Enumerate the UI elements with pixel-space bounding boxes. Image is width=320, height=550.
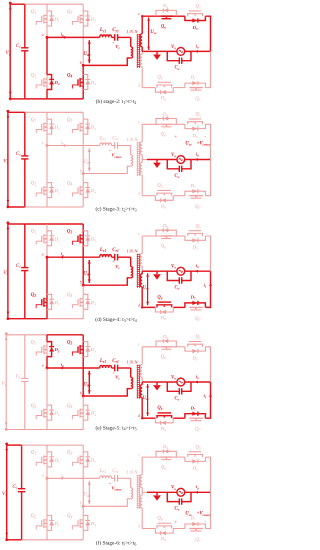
ground [153, 492, 161, 501]
current ip [60, 251, 65, 258]
svg-text:Q3: Q3 [67, 340, 73, 345]
svg-text:io: io [196, 263, 199, 269]
svg-text:D5: D5 [192, 466, 198, 472]
transistor Q7 [189, 529, 203, 544]
transistor Q3 [67, 230, 83, 247]
transistor Q2 [31, 293, 47, 310]
wire node a to resonant tank [47, 367, 100, 369]
body diode D5 [185, 457, 206, 472]
voltage arrow Uab [83, 481, 91, 504]
node d [138, 525, 140, 529]
svg-text:Vo: Vo [171, 486, 176, 491]
body diode D1 [47, 11, 60, 26]
svg-text:Uab: Uab [83, 160, 90, 165]
inductor Lr1 [99, 136, 112, 145]
svg-text:is: is [204, 393, 207, 399]
wire Q4 source to rail [82, 531, 84, 539]
body diode D6 [156, 3, 176, 16]
svg-text:D5: D5 [192, 133, 198, 139]
body diode D2 [47, 515, 60, 530]
svg-text:a: a [42, 474, 44, 478]
primary winding [83, 377, 132, 396]
svg-text:Q2: Q2 [31, 404, 37, 409]
svg-text:D1: D1 [54, 17, 60, 23]
svg-text:Cr1: Cr1 [112, 28, 119, 33]
node a [42, 33, 49, 39]
svg-text:ip: ip [61, 31, 64, 37]
svg-text:D5: D5 [192, 245, 198, 251]
wire right rail upper [205, 124, 210, 159]
wire Q1 source to node a [46, 27, 48, 37]
svg-text:D4: D4 [90, 411, 96, 417]
wire bottom rail [10, 98, 83, 100]
transistor Q8 [156, 295, 172, 307]
body diode D4 [83, 75, 96, 90]
svg-text:Vi: Vi [3, 270, 8, 276]
svg-text:d: d [138, 525, 140, 529]
inductor Lr1 [99, 248, 112, 257]
secondary top winding [140, 16, 142, 51]
wire node a to resonant tank [47, 145, 100, 147]
wire node c to Q6 [142, 235, 160, 237]
wire Q8 to Q7 [173, 306, 185, 308]
node a [42, 363, 49, 369]
svg-text:Vi: Vi [5, 50, 10, 56]
transistor Q1 [31, 230, 47, 247]
wire center tap [142, 491, 147, 493]
wire node c to Q6 [142, 346, 160, 348]
wire Q8 to Q7 [173, 528, 185, 530]
wire Q1 drain lead [46, 224, 48, 230]
transistor Q3 [67, 451, 83, 468]
svg-text:Q5: Q5 [196, 446, 201, 451]
current io [195, 484, 199, 494]
svg-text:c: c [138, 343, 140, 347]
inductor Lr1 [99, 359, 112, 368]
transistor Q1 [31, 10, 47, 27]
svg-text:Q6: Q6 [161, 465, 166, 470]
svg-text:Uab: Uab [83, 272, 90, 277]
svg-text:c: c [138, 453, 140, 457]
body diode D2 [47, 75, 60, 90]
svg-text:D5: D5 [192, 25, 198, 31]
wire Q3 source to node b [82, 468, 84, 506]
current io [195, 151, 199, 161]
wire right rail lower [205, 160, 210, 196]
voltage source Vo [171, 153, 185, 164]
svg-text:+: + [112, 371, 114, 375]
transistor Q6 [160, 124, 172, 137]
node b [80, 169, 85, 175]
capacitor Co [167, 51, 191, 70]
label Vc [112, 371, 120, 381]
wire node d to Q8 [142, 417, 155, 419]
svg-text:Ci: Ci [16, 151, 21, 157]
body diode D3 [83, 11, 96, 26]
svg-text:D3: D3 [90, 347, 96, 353]
voltage source Vi [3, 110, 9, 209]
transistor Q1 [31, 451, 47, 468]
wire output line [157, 381, 211, 383]
transistor Q5 [187, 5, 203, 17]
wire right rail lower [205, 51, 210, 87]
svg-text:Use: Use [185, 142, 192, 147]
node b [80, 281, 85, 287]
ground [153, 160, 161, 169]
secondary bottom winding [140, 492, 142, 528]
wire node d to Q8 [142, 528, 155, 530]
svg-text:Vo: Vo [171, 375, 176, 380]
body diode D7 [185, 516, 206, 529]
svg-text:Q6: Q6 [161, 244, 166, 249]
svg-text:Lr1: Lr1 [99, 469, 106, 474]
wire Q1 drain lead [46, 112, 48, 118]
body diode D7 [185, 183, 206, 196]
wire Q6 to Q5 [173, 456, 185, 458]
svg-text:Q2: Q2 [31, 73, 37, 78]
wire node b to Q4 [82, 396, 84, 404]
svg-text:Co: Co [175, 174, 180, 179]
capacitor Co [167, 492, 191, 511]
body diode D6 [156, 444, 176, 457]
svg-text:Co: Co [175, 286, 180, 291]
svg-text:io: io [196, 484, 199, 490]
svg-text:Q7: Q7 [195, 205, 200, 210]
svg-text:D3: D3 [90, 125, 96, 131]
svg-text:D4: D4 [90, 521, 96, 527]
wire Q8 to Q7 [173, 195, 185, 197]
wire bottom rail [7, 539, 84, 541]
wire Q3 drain lead [82, 4, 84, 10]
body diode D8 [155, 307, 173, 321]
svg-text:a: a [42, 33, 44, 37]
wire Q1 drain lead [46, 4, 48, 10]
ground [153, 382, 161, 391]
primary winding [83, 155, 132, 174]
voltage source Vi [3, 221, 9, 320]
transistor Q4 [67, 514, 83, 531]
svg-text:D2: D2 [54, 521, 60, 527]
wire Q3 drain lead [82, 445, 84, 451]
body diode D2 [47, 183, 60, 198]
voltage arrow Uab [83, 148, 91, 171]
capacitor Co [167, 271, 191, 290]
transistor Q5 [187, 446, 203, 458]
body diode D5 [185, 124, 206, 139]
current io [195, 263, 199, 273]
svg-text:a: a [42, 253, 44, 257]
wire Q1 source to node a [46, 135, 48, 145]
svg-text:Q3: Q3 [67, 451, 73, 456]
svg-text:Q7: Q7 [195, 538, 200, 543]
svg-text:Ci: Ci [16, 263, 21, 269]
voltage arrow Uab [83, 371, 91, 394]
svg-text:Cr1: Cr1 [112, 136, 119, 141]
svg-text:Q8: Q8 [157, 76, 162, 81]
svg-text:Q6: Q6 [161, 24, 166, 29]
wire node b to Q4 [82, 174, 84, 182]
capacitor Ci [16, 335, 29, 430]
secondary top winding [140, 457, 142, 492]
voltage arrow Uab [83, 40, 91, 63]
transformer core [137, 34, 140, 68]
transistor Q6 [160, 347, 172, 360]
voltage source Vi [1, 332, 7, 431]
svg-text:Co: Co [175, 396, 180, 401]
svg-text:d: d [138, 192, 140, 196]
transformer core [137, 254, 140, 288]
svg-text:Use: Use [143, 396, 150, 401]
svg-text:D4: D4 [90, 188, 96, 194]
svg-text:Q5: Q5 [196, 113, 201, 118]
capacitor Ci [12, 445, 25, 540]
wire node a to Q2 [46, 146, 48, 182]
svg-text:D8: D8 [160, 203, 166, 209]
body diode D2 [47, 405, 60, 420]
body diode D8 [155, 88, 173, 102]
secondary top winding [140, 124, 142, 159]
primary winding [83, 47, 132, 66]
transistor Q4 [67, 404, 83, 421]
svg-text:Co: Co [175, 66, 180, 71]
body diode D5 [185, 16, 206, 31]
secondary top winding [140, 347, 142, 382]
transistor Q3 [67, 340, 83, 357]
wire node c to Q6 [142, 456, 160, 458]
body diode D5 [185, 236, 206, 251]
svg-text:Vo: Vo [171, 153, 176, 158]
wire Q1 source to node a [46, 247, 48, 257]
wire Q1 source to node a [46, 468, 48, 478]
svg-text:(b) stage-2: t1>t>t2: (b) stage-2: t1>t>t2 [96, 98, 137, 105]
svg-text:Q3: Q3 [67, 230, 73, 235]
svg-text:c: c [138, 120, 140, 124]
svg-text:-: - [205, 519, 207, 524]
wire Q2 source to rail [46, 531, 48, 539]
capacitor Co [167, 382, 191, 401]
svg-text:Q8: Q8 [157, 406, 162, 411]
transistor Q4 [67, 293, 83, 310]
wire right rail lower [205, 492, 210, 528]
wire Q3 source to node b [82, 135, 84, 173]
body diode D6 [156, 334, 176, 347]
body diode D4 [83, 515, 96, 530]
transistor Q8 [156, 184, 172, 196]
secondary bottom winding [140, 51, 142, 87]
wire Q1 source to node a [46, 358, 48, 368]
wire Q4 source to rail [82, 91, 84, 99]
svg-text:+Vcmax: +Vcmax [197, 512, 211, 517]
body diode D1 [47, 342, 60, 357]
body diode D6 [156, 111, 176, 124]
svg-text:Q2: Q2 [31, 293, 37, 298]
voltage arrow Use [143, 273, 150, 305]
body diode D4 [83, 294, 96, 309]
svg-text:D2: D2 [54, 300, 60, 306]
wire Q6 to Q5 [173, 346, 185, 348]
svg-text:Lr1: Lr1 [99, 136, 106, 141]
label Vc [112, 40, 120, 50]
node c [138, 343, 140, 347]
svg-text:d: d [138, 84, 140, 88]
svg-text:Use: Use [143, 285, 150, 290]
wire top rail [6, 334, 83, 336]
wire Q8 to Q7 [173, 87, 185, 89]
body diode D5 [185, 347, 206, 362]
svg-text:Q6: Q6 [161, 355, 166, 360]
wire tank to transformer [130, 146, 132, 155]
wire node d to Q8 [142, 306, 155, 308]
svg-text:Use: Use [150, 30, 157, 35]
transistor Q5 [187, 224, 203, 236]
voltage source Vi [2, 443, 8, 542]
svg-text:+: + [175, 133, 178, 138]
wire Q4 source to rail [82, 310, 84, 318]
svg-text:b: b [80, 391, 82, 395]
svg-text:1:N:N: 1:N:N [126, 29, 138, 34]
svg-text:Q7: Q7 [195, 317, 200, 322]
body diode D4 [83, 405, 96, 420]
voltage source Vo [171, 265, 185, 276]
svg-text:Lr1: Lr1 [99, 359, 106, 364]
svg-text:Q2: Q2 [31, 181, 37, 186]
secondary top winding [140, 236, 142, 271]
node c [138, 12, 143, 17]
svg-text:Vc: Vc [115, 264, 120, 270]
svg-text:Q5: Q5 [196, 224, 201, 229]
voltage source Vo [171, 45, 185, 56]
transistor Q5 [187, 335, 203, 347]
node a [42, 474, 49, 480]
wire tank to transformer [130, 478, 132, 487]
svg-text:Q1: Q1 [31, 230, 37, 235]
capacitor Ci [16, 224, 29, 319]
svg-text:1:N:N: 1:N:N [126, 470, 138, 475]
svg-text:c: c [138, 12, 140, 16]
svg-text:D3: D3 [90, 17, 96, 23]
transistor Q3 [67, 10, 83, 27]
svg-text:D1: D1 [54, 236, 60, 242]
svg-text:D8: D8 [160, 315, 166, 321]
wire bottom rail [8, 318, 83, 320]
svg-text:Vi: Vi [1, 381, 6, 387]
svg-text:a: a [42, 141, 44, 145]
node b [80, 502, 85, 508]
capacitor Cr1 [112, 469, 131, 482]
wire tank to transformer [130, 37, 132, 46]
svg-text:Q4: Q4 [67, 514, 73, 519]
capacitor Ci [16, 112, 29, 207]
wire top rail [8, 111, 83, 113]
svg-text:D1: D1 [54, 125, 60, 131]
svg-text:Vc: Vc [115, 44, 120, 50]
node b [80, 61, 85, 67]
svg-text:Ci: Ci [16, 43, 21, 49]
body diode D8 [155, 196, 173, 210]
node a [42, 141, 49, 147]
svg-text:Q5: Q5 [196, 5, 201, 10]
wire Q1 drain lead [46, 445, 48, 451]
wire Q3 drain lead [82, 112, 84, 118]
capacitor Cr1 [112, 28, 131, 41]
capacitor Cr1 [112, 248, 131, 261]
svg-text:D8: D8 [160, 426, 166, 432]
svg-text:D7: D7 [190, 183, 196, 189]
svg-text:D2: D2 [54, 411, 60, 417]
transistor Q2 [31, 181, 47, 198]
transistor Q2 [31, 73, 47, 90]
node c [138, 453, 140, 457]
node c [138, 120, 140, 124]
secondary bottom winding [140, 382, 142, 418]
transistor Q7 [189, 418, 203, 433]
wire bottom rail [6, 429, 83, 431]
wire node a to Q2 [46, 368, 48, 404]
current ip [61, 140, 68, 147]
body diode D7 [185, 405, 206, 418]
transistor Q6 [160, 236, 172, 249]
wire node c to Q6 [142, 15, 160, 17]
body diode D1 [47, 119, 60, 134]
svg-text:D3: D3 [90, 458, 96, 464]
svg-text:d: d [138, 414, 140, 418]
svg-text:Co: Co [175, 507, 180, 512]
svg-text:+: + [112, 40, 114, 44]
svg-text:Cr1: Cr1 [112, 359, 119, 364]
current ip [60, 472, 65, 479]
wire Q4 source to rail [82, 199, 84, 207]
svg-text:1:N:N: 1:N:N [126, 249, 138, 254]
secondary bottom winding [140, 160, 142, 196]
svg-text:Cr1: Cr1 [112, 469, 119, 474]
current is [204, 393, 212, 399]
svg-text:D7: D7 [190, 75, 196, 81]
svg-text:Q3: Q3 [67, 118, 73, 123]
svg-text:Uab: Uab [83, 493, 90, 498]
wire Q2 source to rail [46, 91, 48, 99]
svg-text:D4: D4 [90, 80, 96, 86]
wire node d to Q8 [142, 195, 155, 197]
transformer core [137, 365, 140, 399]
body diode D3 [83, 342, 96, 357]
wire node a to resonant tank [47, 256, 100, 258]
svg-text:Cr1: Cr1 [112, 248, 119, 253]
current io [195, 374, 199, 384]
wire output line [157, 491, 211, 493]
svg-text:+: + [112, 260, 114, 264]
body diode D8 [155, 418, 173, 432]
svg-text:d: d [138, 303, 140, 307]
wire tank to transformer [130, 368, 132, 377]
transistor Q3 [67, 118, 83, 135]
svg-text:Q8: Q8 [157, 516, 162, 521]
body diode D1 [47, 231, 60, 246]
svg-text:Lr1: Lr1 [99, 248, 106, 253]
body diode D1 [47, 452, 60, 467]
wire Q8 to Q7 [173, 417, 185, 419]
transistor Q5 [187, 113, 203, 125]
voltage source Vo [171, 486, 185, 496]
transistor Q2 [31, 514, 47, 531]
wire top rail [10, 3, 83, 5]
wire top rail [8, 223, 83, 225]
svg-text:Vcmax: Vcmax [112, 486, 122, 492]
svg-text:b: b [80, 281, 82, 285]
svg-text:Uab: Uab [83, 52, 90, 57]
wire node a to Q2 [46, 257, 48, 293]
voltage arrow Uab [83, 260, 91, 283]
voltage arrow Use [143, 384, 150, 416]
